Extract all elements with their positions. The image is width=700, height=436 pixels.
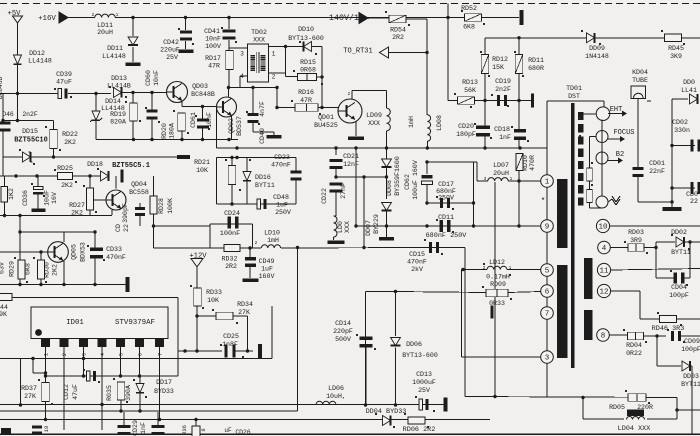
wire RD32 r [240, 247, 261, 249]
svg-text:CD23: CD23 [274, 154, 290, 161]
wire 405 rail [0, 404, 444, 406]
svg-text:RD27: RD27 [69, 202, 85, 209]
svg-text:680nF 250V: 680nF 250V [426, 232, 468, 240]
svg-text:RD33: RD33 [206, 289, 222, 296]
capacitor CD09 [671, 331, 681, 341]
svg-text:RD13: RD13 [462, 79, 478, 86]
wire x20 drop [20, 359, 22, 406]
junction [248, 246, 251, 249]
wire cap390 d [139, 215, 141, 226]
svg-text:47uF: 47uF [72, 384, 79, 400]
svg-text:22nF: 22nF [649, 168, 665, 175]
svg-text:100uF 160V: 100uF 160V [412, 160, 419, 200]
capacitor CD13 [419, 399, 428, 410]
wire CD01 down [638, 176, 672, 202]
wire DD06 down [395, 348, 397, 406]
wire 412 rail [0, 410, 298, 412]
label CD15 [409, 251, 425, 258]
label DD07 value [373, 214, 380, 234]
wire focus trimmer [590, 137, 597, 169]
svg-text:LD0: LD0 [337, 221, 344, 233]
wire pin column [546, 187, 548, 219]
svg-text:RD52: RD52 [461, 5, 477, 12]
junction [18, 230, 21, 233]
capacitor CD01 [633, 167, 644, 177]
svg-text:DD13: DD13 [111, 75, 127, 82]
TD01 secondary dashes [578, 112, 583, 206]
label CD21 value [343, 161, 359, 168]
junction [201, 105, 204, 108]
wire 176 rail [0, 175, 106, 177]
svg-text:10nF: 10nF [206, 112, 213, 128]
wire pin7 down [159, 347, 161, 420]
label DD08 [386, 180, 393, 196]
wire DD17 [139, 376, 141, 384]
wire pin column [546, 232, 548, 263]
junction [362, 246, 365, 249]
wire loop right [252, 224, 254, 248]
wire b1 [123, 412, 125, 426]
label XXX [344, 221, 351, 233]
label CD03 value [690, 198, 698, 205]
diode DD05 right edge [690, 94, 698, 104]
svg-text:1nF: 1nF [140, 422, 147, 434]
inductor LD08 [427, 115, 430, 141]
resistor bottom [192, 426, 200, 436]
pin 4 of TD02 [240, 73, 244, 80]
wire CD33 d [94, 257, 96, 285]
wire x297 long [297, 248, 299, 412]
svg-text:BC846B: BC846B [0, 77, 4, 100]
wire diode row right [672, 98, 688, 100]
wire RD12 top [484, 38, 486, 55]
pin 6 of TD01 [541, 285, 554, 298]
label BZT55C5.1 [112, 162, 150, 170]
label CD49 volt [259, 273, 275, 280]
wire 226 rail [356, 225, 541, 227]
capacitor CD22 [330, 182, 343, 192]
svg-text:RD37: RD37 [21, 385, 37, 392]
wire pin3 row [462, 356, 541, 358]
svg-text:LD04 XXX: LD04 XXX [618, 425, 651, 433]
svg-text:CD: CD [115, 224, 122, 232]
power symbol +16V [59, 12, 68, 23]
inductor LD12 [487, 266, 507, 269]
IC pin number 2 [62, 353, 68, 356]
label CD14 [335, 320, 351, 327]
wire pin6 down [139, 347, 141, 376]
label QD01 [318, 114, 334, 121]
svg-text:22: 22 [123, 224, 130, 232]
wire CD21 down [335, 168, 337, 177]
svg-text:TD02: TD02 [251, 29, 267, 36]
wire 157 rail [217, 157, 297, 159]
pin 11 of TD01 [597, 263, 610, 276]
junction [150, 91, 153, 94]
wire pin2 down [63, 347, 65, 430]
label CD42 [163, 39, 179, 46]
label RD15 value [300, 67, 316, 74]
diode DD06 [391, 338, 401, 346]
svg-text:LD08: LD08 [436, 115, 443, 131]
svg-text:2K2: 2K2 [52, 264, 59, 276]
inductor LD06 [316, 401, 336, 404]
svg-text:CD48: CD48 [273, 194, 289, 201]
label CD11 [438, 214, 454, 221]
pin 9 of TD01 [541, 220, 554, 233]
wire QD03 emitter rail [181, 101, 183, 107]
label CD23 value [271, 162, 291, 169]
svg-text:CD09: CD09 [684, 338, 700, 345]
inductor LD09 [387, 108, 391, 131]
svg-text:LD10: LD10 [264, 230, 280, 237]
svg-text:DD11: DD11 [107, 45, 123, 52]
wire 397 rail [465, 397, 677, 398]
label RD33 [206, 289, 222, 296]
svg-text:1N4148: 1N4148 [585, 53, 609, 60]
svg-text:CD33: CD33 [106, 246, 122, 253]
label RD45 value [670, 53, 682, 60]
wire RD04 r [644, 335, 667, 337]
label DD12 [29, 50, 45, 57]
svg-text:RD06 2R2: RD06 2R2 [403, 426, 436, 434]
pin 3 of TD01 [541, 351, 554, 364]
wire DD14 down [96, 120, 182, 140]
label CD19 value [495, 86, 511, 93]
resistor RD37 [42, 383, 50, 402]
wire DD17 down [139, 393, 141, 412]
wire terminal column [601, 120, 603, 197]
label CD18 value [499, 134, 511, 141]
wire trimmer g2 [590, 203, 603, 209]
junction [19, 403, 22, 406]
G2 arrow [608, 158, 623, 164]
capacitor CD02 [690, 140, 700, 152]
wire to DD11 [132, 18, 134, 37]
wire CD18 d [518, 139, 520, 148]
resistor RD44 [0, 294, 12, 301]
wire pin4 down [101, 347, 103, 430]
wire EHT winding [583, 113, 597, 115]
label CD01 [649, 160, 665, 167]
wire RD37 down [45, 402, 47, 420]
svg-text:CD19: CD19 [495, 78, 511, 85]
wire b3 [195, 420, 197, 427]
svg-text:CD02: CD02 [672, 119, 688, 126]
junction [131, 16, 134, 19]
svg-text:DD18: DD18 [87, 161, 103, 168]
label RD25 [57, 165, 73, 172]
svg-text:25V: 25V [166, 54, 178, 61]
svg-text:DD12: DD12 [29, 50, 45, 57]
svg-text:8: 8 [200, 428, 207, 431]
wire DD07 down [386, 212, 388, 227]
wire DD15 row [3, 156, 54, 158]
terminal bar [258, 344, 262, 358]
svg-text:10uH,: 10uH, [326, 393, 346, 400]
tick 1 [116, 12, 119, 18]
label LD12 [489, 259, 505, 266]
IC pins [41, 339, 164, 348]
label TD01 [566, 85, 582, 92]
capacitor CD18 [514, 129, 526, 140]
svg-text:2: 2 [92, 12, 95, 18]
svg-text:RD11: RD11 [528, 57, 544, 64]
label DD02 [671, 229, 687, 236]
label CD49 [259, 258, 275, 265]
label CD62 [404, 174, 411, 190]
label RD54 value [392, 34, 404, 41]
svg-text:LD06: LD06 [328, 385, 344, 392]
junction [100, 403, 103, 406]
terminal bar [177, 155, 190, 159]
junction [158, 418, 161, 421]
wire RD19 down [132, 121, 134, 140]
net label +12V [189, 253, 207, 261]
junction [18, 214, 21, 217]
wire right edge rail2 [672, 187, 695, 189]
wire pin5 down [120, 347, 122, 376]
wire QD05 emitter [63, 261, 65, 285]
svg-text:STV9379AF: STV9379AF [115, 319, 155, 327]
svg-text:470nF: 470nF [106, 254, 126, 261]
capacitor CD48 [257, 199, 266, 209]
svg-text:+16V: +16V [38, 15, 56, 23]
IC pin number 4 [100, 353, 106, 356]
label RD22 value [64, 139, 76, 146]
svg-text:TUBE: TUBE [632, 77, 648, 84]
label CD33 value [106, 254, 126, 261]
capacitor CD25 [224, 345, 235, 358]
svg-text:1000uF: 1000uF [412, 379, 436, 386]
label DD11 value [102, 53, 126, 60]
label RD16 value [300, 97, 312, 104]
junction [655, 334, 658, 337]
svg-text:2n2F: 2n2F [22, 111, 38, 118]
label QD02 [228, 118, 235, 134]
svg-text:B2: B2 [616, 151, 624, 159]
wire CD36 down [37, 195, 39, 209]
svg-text:1: 1 [509, 265, 512, 271]
svg-text:9: 9 [545, 224, 550, 232]
wire CD49 down [249, 267, 251, 278]
power symbol +12V [191, 259, 203, 267]
svg-text:390A: 390A [125, 385, 132, 401]
label RD34 [237, 301, 253, 308]
junction [31, 357, 34, 360]
tick 2 [92, 12, 95, 18]
wire LD11 to rail [115, 17, 519, 19]
svg-text:5: 5 [119, 353, 125, 356]
wire up to diode [656, 242, 675, 248]
label LD07 value [493, 170, 509, 177]
svg-text:1uF: 1uF [276, 202, 288, 209]
wire RD15 left [286, 76, 298, 78]
wire trimmer down [589, 181, 591, 190]
terminal bar [520, 10, 524, 25]
wire pin4 row [610, 247, 628, 249]
junction [119, 374, 122, 377]
TD01 primary winding bar [557, 179, 568, 248]
wire 252 base [0, 251, 48, 253]
wire block left [216, 158, 218, 205]
resistor RD29 [18, 260, 25, 279]
svg-text:BY359F1600: BY359F1600 [394, 156, 401, 196]
wire pin column [546, 276, 548, 284]
wire 100nF loop top [210, 223, 253, 225]
ground [32, 209, 46, 212]
trimmer resistor focus [587, 168, 593, 181]
wire pin10 [610, 225, 700, 227]
wire CD21 drop [335, 148, 337, 155]
junction [44, 418, 47, 421]
power symbol +5V [13, 16, 23, 23]
svg-text:12nF: 12nF [343, 161, 359, 168]
svg-text:DD14: DD14 [105, 98, 121, 105]
wire CD42 to gnd [185, 41, 187, 49]
junction [670, 186, 673, 189]
junction [362, 175, 365, 178]
svg-text:47uF: 47uF [56, 79, 72, 86]
junction [425, 201, 428, 204]
label CD48 [273, 194, 289, 201]
net arrow 140V input [359, 13, 368, 24]
pin 10 of TD01 [596, 219, 609, 232]
wire +5V down [17, 23, 19, 55]
svg-text:LL4148: LL4148 [102, 53, 126, 60]
svg-text:RD12: RD12 [492, 56, 508, 63]
terminal bar [490, 306, 493, 319]
junction [39, 283, 42, 286]
junction [394, 403, 397, 406]
svg-text:CD62: CD62 [404, 174, 411, 190]
wire cd04 wire r [684, 277, 690, 279]
svg-text:140V/1: 140V/1 [329, 13, 359, 23]
wire LD12 r [507, 269, 541, 271]
wire out right [677, 409, 700, 411]
resistor RD15 [298, 73, 317, 80]
wire QD01 emitter [355, 121, 357, 136]
svg-text:1: 1 [44, 353, 50, 356]
resistor RD11 [515, 55, 523, 74]
wire 298 rail [12, 298, 178, 377]
svg-text:RD16: RD16 [298, 89, 314, 96]
resistor left edge [1, 186, 8, 202]
svg-text:RD32: RD32 [222, 256, 238, 263]
wire x33 [33, 359, 46, 374]
label DD15 value [14, 137, 48, 145]
wire CD62 down [426, 184, 428, 203]
ground [179, 50, 194, 53]
wire RD29 [19, 252, 21, 260]
label DD09 [589, 45, 605, 52]
pin 8 of TD01 [597, 329, 610, 342]
label ID01 [66, 319, 84, 327]
svg-text:ID01: ID01 [66, 319, 84, 327]
junction [275, 106, 278, 109]
label CD48 value [276, 202, 288, 209]
label CD41 value [205, 36, 221, 43]
wire RD12 down [484, 73, 486, 101]
label DD06 value [402, 352, 438, 359]
label RD05 value [637, 404, 653, 411]
junction [334, 146, 337, 149]
label RD52 value [463, 24, 475, 31]
svg-text:CD20: CD20 [458, 123, 474, 130]
label RD04 value [626, 350, 642, 357]
wire RD16 row [277, 107, 295, 109]
svg-text:2K2: 2K2 [64, 139, 76, 146]
svg-text:6K8: 6K8 [25, 263, 32, 275]
svg-text:470nF: 470nF [407, 259, 427, 266]
IC pin number 7 [158, 353, 164, 356]
label CD25 [223, 333, 239, 340]
wire 120 rail [3, 120, 54, 122]
ground [348, 137, 364, 140]
label DD17 value [154, 388, 174, 395]
junction [425, 224, 428, 227]
capacitor CD60 [147, 110, 158, 120]
diode DD13 [114, 88, 122, 98]
junction [354, 146, 357, 149]
IC pin number 1 [44, 353, 50, 356]
svg-text:CD12: CD12 [63, 384, 70, 400]
wire TO_RT31 [389, 52, 428, 54]
wire CD36 [37, 176, 39, 187]
svg-text:CD39: CD39 [56, 71, 72, 78]
wire RD22 d [53, 149, 55, 158]
label CD42 volt [166, 54, 178, 61]
svg-text:QD05: QD05 [71, 244, 78, 260]
svg-text:RD34: RD34 [237, 301, 253, 308]
svg-text:470nF: 470nF [271, 162, 291, 169]
diode DD04 [383, 416, 391, 426]
svg-text:CD25: CD25 [223, 333, 239, 340]
label QD04 value [129, 189, 149, 196]
junction [184, 16, 187, 19]
label RD13 value [464, 87, 476, 94]
label DD15 [22, 128, 38, 135]
label RD44 value [0, 311, 7, 318]
svg-text:LD11: LD11 [97, 22, 113, 29]
svg-text:RD29: RD29 [9, 261, 16, 277]
label LD08 value [408, 116, 415, 128]
label RD37 [21, 385, 37, 392]
resistor RD54 [389, 15, 406, 23]
wire RD19 [132, 93, 134, 104]
svg-text:10nF: 10nF [205, 36, 221, 43]
svg-text:100K: 100K [167, 198, 174, 214]
label QD03 [192, 83, 208, 90]
svg-text:DST: DST [568, 93, 580, 100]
label RD06 2R2 [403, 426, 436, 434]
label RD46 3R3 [652, 325, 685, 333]
svg-text:7: 7 [545, 311, 550, 319]
svg-text:2R2: 2R2 [225, 263, 237, 270]
label CD17 value [436, 188, 456, 195]
EHT terminal [596, 107, 610, 121]
svg-text:CD0: CD0 [686, 191, 698, 198]
label CD12 [63, 384, 70, 400]
transistor QD02 [217, 97, 237, 117]
junction [1, 119, 4, 122]
label CD25 value [222, 341, 238, 348]
svg-text:RD04: RD04 [626, 342, 642, 349]
wire cd04 wire [656, 277, 674, 279]
wire 37v rail [485, 37, 700, 39]
wire RD32 l [210, 247, 224, 249]
resistor RD16 [295, 104, 318, 112]
